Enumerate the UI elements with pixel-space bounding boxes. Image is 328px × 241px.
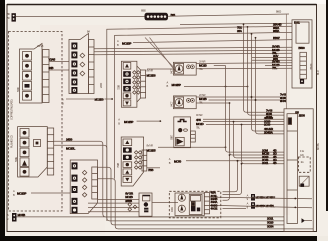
wire strip to right [168,14,289,16]
ladder C1 [89,40,95,94]
svg-text:03B7: 03B7 [170,134,174,140]
fuse arrow in B2 [302,218,306,223]
buzzer R3 [170,113,205,148]
wire battery to strip [16,16,145,18]
svg-text:MC2B: MC2B [199,63,207,67]
svg-text:MC2BP: MC2BP [17,192,26,196]
svg-text:24BB: 24BB [125,199,133,203]
block B1 top right [292,20,313,88]
svg-text:BL17: BL17 [316,69,320,75]
wire C4 out 2 [98,179,314,229]
label MC2BP mid [118,118,161,126]
labels at B1 entry group2 [272,45,280,55]
connector C4 (left column lower) [70,160,97,214]
connector housing A (upper, in dashed box) [20,44,44,104]
wire group C1 to B1 [94,47,292,49]
svg-text:MC2B: MC2B [199,97,207,101]
svg-text:MC2BP: MC2BP [124,120,133,124]
label MC2BP lower dashed [13,189,70,197]
6-way connector strip [141,9,176,21]
wires C4 to relay [98,199,140,201]
wire C4 out 1 [98,167,285,225]
svg-text:7BL: 7BL [272,66,277,70]
bundle v1 [226,66,285,153]
actuator R2 [169,93,207,109]
svg-text:B500: B500 [298,46,305,50]
svg-text:2A50: 2A50 [99,82,103,88]
big box outer [107,26,292,221]
svg-text:PL/UMES C3: PL/UMES C3 [10,135,14,148]
svg-text:753B: 753B [116,163,120,168]
svg-text:2C30: 2C30 [264,123,271,127]
connector C1 (left column upper) [69,30,94,94]
block B2 bottom right [284,109,313,232]
svg-text:BB07: BB07 [273,36,280,40]
svg-text:4AG2: 4AG2 [211,207,218,211]
svg-text:COFFRE (TAILGATE): COFFRE (TAILGATE) [10,99,14,120]
big box inner [115,32,292,178]
ground lead 1 [210,193,313,201]
svg-text:Y2A5: Y2A5 [49,58,56,62]
svg-text:MC6BP: MC6BP [256,204,265,208]
svg-text:1B00: 1B00 [299,113,306,117]
svg-text:9V NR: 9V NR [196,113,203,117]
bottom nest labels [267,216,274,228]
wire top extra [180,23,292,24]
wire A out 2 [49,69,69,71]
pair wires to B2 [248,27,285,115]
battery feed component top-left [7,12,16,22]
svg-text:9F34: 9F34 [280,99,286,103]
svg-text:04C7: 04C7 [169,68,173,74]
wire relay to D2 [152,202,178,204]
fan diagonals C2 [145,38,173,68]
dashed box D2 bottom centre [169,191,221,218]
connector C2 (centre upper) [117,61,156,107]
svg-text:B2 7BL: B2 7BL [316,142,320,150]
svg-text:2G4BA: 2G4BA [264,131,274,135]
ladder B [47,128,53,175]
svg-text:MC2BP: MC2BP [122,41,131,45]
svg-text:MC2BL: MC2BL [66,146,75,150]
wire B out 2 to bottom bundle [54,145,284,221]
svg-text:MC2D: MC2D [196,122,204,126]
labels at B1 entry group3 [272,60,280,70]
svg-text:MC2B6: MC2B6 [147,74,156,78]
wire B out 1 to bottom bundle [54,141,284,217]
svg-text:7BL: 7BL [272,51,277,55]
connector housing B (lower, in dashed box) [18,127,48,177]
svg-text:BSI1: BSI1 [294,21,300,25]
svg-text:24B0: 24B0 [66,138,73,142]
svg-text:3G34: 3G34 [267,225,274,229]
bundle labels [262,149,277,165]
R1 wires to B1 [196,62,292,65]
ladder A [43,50,50,103]
svg-text:B600: B600 [276,10,282,14]
battery lead MC5B bottom-left [7,213,169,222]
wire into R1 [147,68,173,70]
actuator R1 [169,59,207,75]
D2 riser wires [223,161,238,192]
ladder C4 [92,167,98,199]
relay labels [125,192,134,203]
wire MC50 [169,157,284,165]
big box right edge [285,14,287,109]
R3 wires [203,118,284,120]
svg-text:753B: 753B [117,85,121,90]
svg-text:7BL00: 7BL00 [309,63,313,70]
ladder C2 [137,66,146,102]
ladder C3 [142,150,147,171]
label under C1 [62,98,113,106]
wire A out 1 [49,60,69,62]
connector C3 (centre lower) [116,137,156,186]
dashed boundary box left [9,32,63,212]
R2 wires [252,34,285,131]
svg-text:MC2B0: MC2B0 [95,98,104,102]
label MC2BP top [117,39,292,47]
label MC2BP 81 [167,80,249,88]
svg-text:MC2BP: MC2BP [172,83,181,87]
svg-text:2G11: 2G11 [262,161,269,165]
svg-text:MC5B: MC5B [18,213,26,217]
ground lead 2 [210,202,313,210]
labels at B1 entry group1 [237,23,282,61]
svg-text:8V NR: 8V NR [147,144,154,148]
svg-text:MC2B5: MC2B5 [147,149,156,153]
wire C3 out [147,167,160,169]
svg-text:1G: 1G [301,160,304,164]
svg-text:V4C7: V4C7 [169,101,173,107]
relay K1 [139,193,152,216]
svg-text:MC50: MC50 [174,159,181,163]
